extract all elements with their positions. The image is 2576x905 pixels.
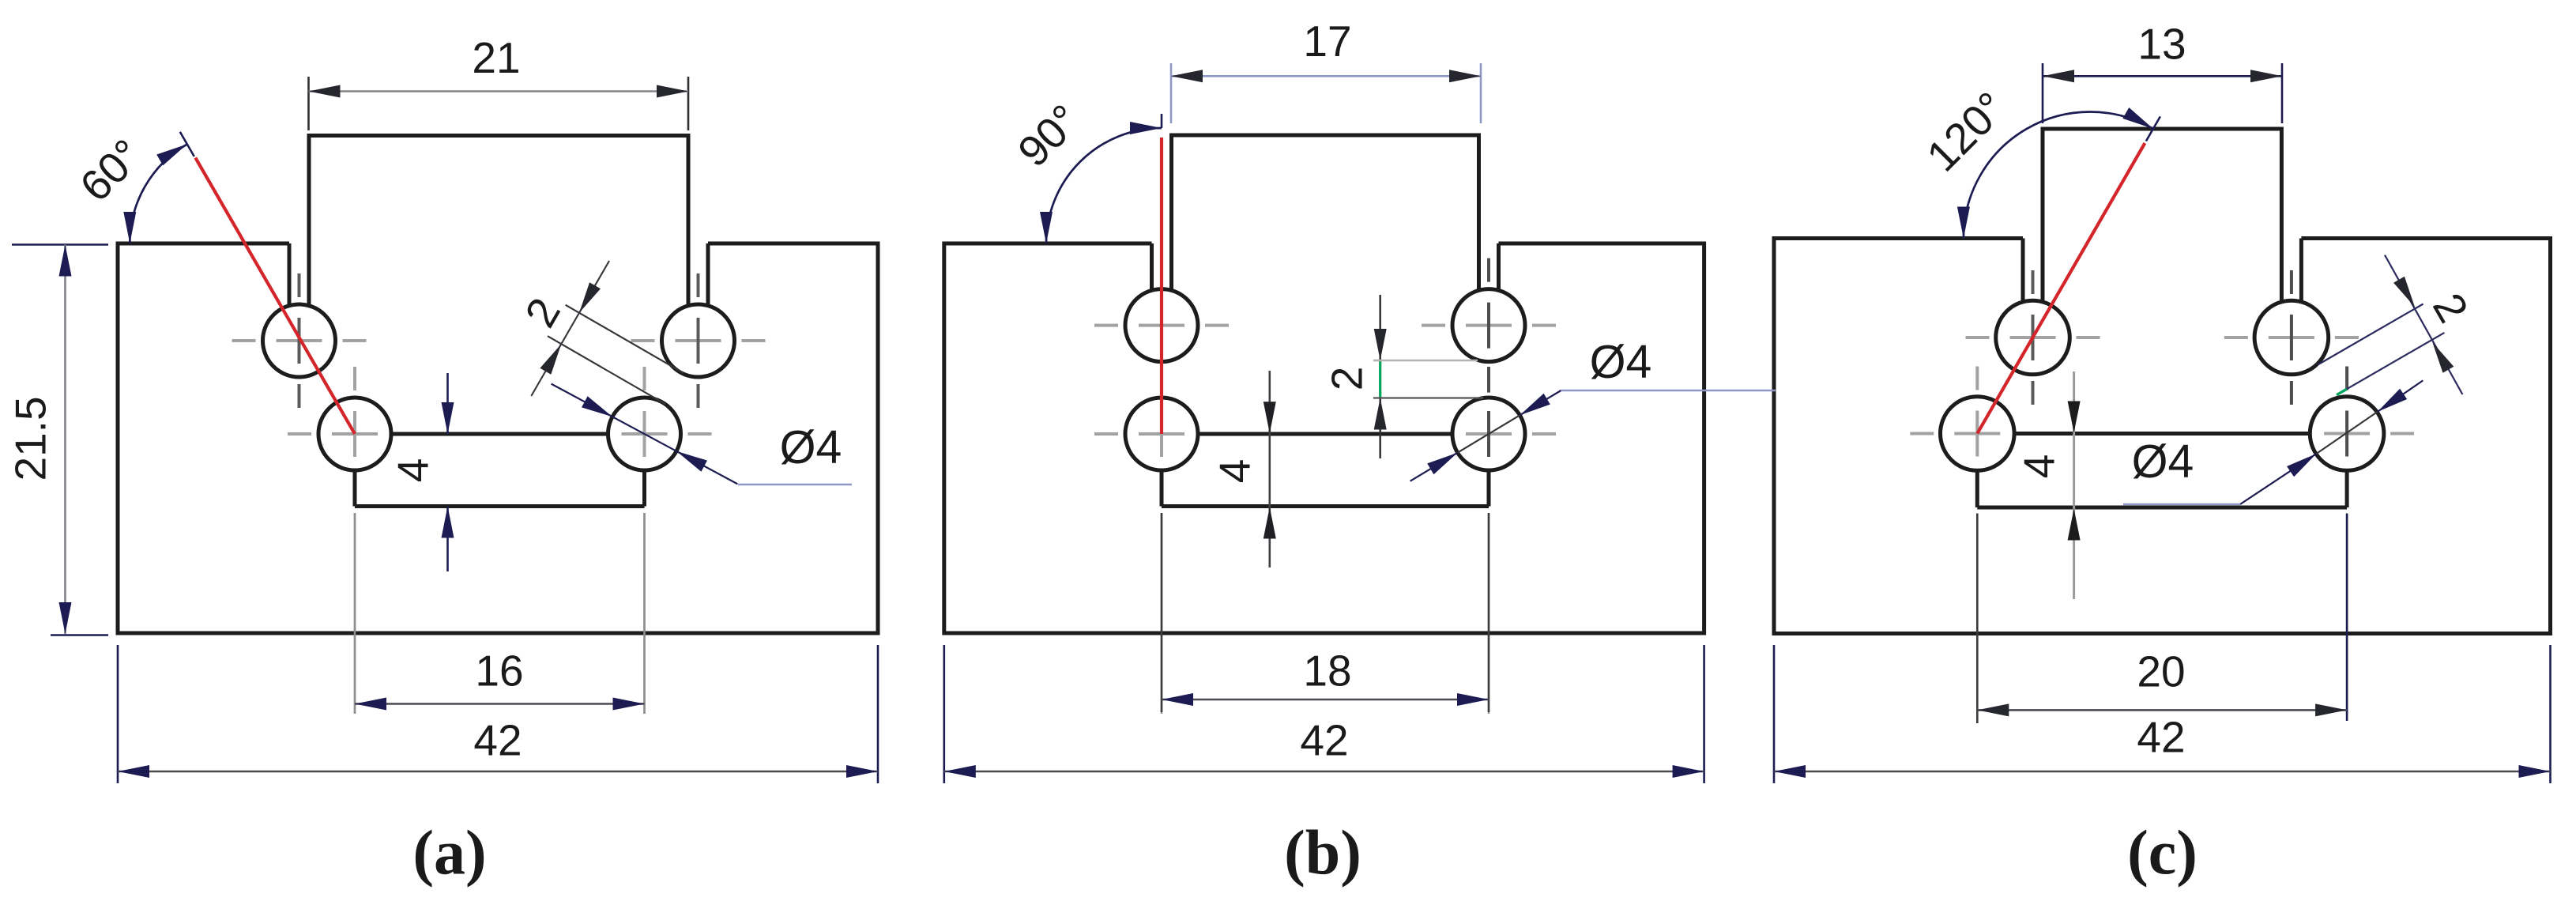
- hole upper-left (c): [1996, 300, 2070, 375]
- dimension 4 slot depth (b): [1211, 371, 1276, 568]
- hole upper-left (a): [263, 304, 336, 377]
- dimension 16 bottom (a): [355, 513, 645, 714]
- red 120-degree cut line (c): [1977, 143, 2145, 433]
- dimension 4 slot depth (c): [2015, 371, 2081, 599]
- svg-text:120°: 120°: [1917, 82, 2015, 180]
- hole centerline cross: [2224, 270, 2359, 405]
- svg-text:Ø4: Ø4: [2132, 436, 2194, 488]
- hole centerline cross: [1094, 367, 1229, 501]
- svg-text:(c): (c): [2127, 819, 2198, 888]
- svg-text:42: 42: [2137, 713, 2185, 762]
- centerline extension to dimension: [354, 513, 356, 714]
- svg-text:4: 4: [2015, 454, 2064, 479]
- diameter leader O4 (b): [1410, 336, 1776, 481]
- hole lower-left (a): [318, 398, 391, 470]
- dimension 2 vertical gap (b): [1323, 295, 1483, 458]
- hole centerline cross: [288, 367, 422, 501]
- svg-text:4: 4: [389, 458, 438, 483]
- svg-text:2: 2: [1323, 367, 1372, 391]
- angle arc 120deg (c): [1957, 107, 2160, 239]
- svg-text:18: 18: [1303, 647, 1351, 696]
- svg-text:4: 4: [1211, 459, 1260, 484]
- dimension 42 bottom (b): [944, 645, 1704, 783]
- angle arc 90deg (b): [1040, 114, 1162, 243]
- centerline extension to dimension: [2346, 513, 2348, 714]
- red 60-degree cut line (a): [195, 158, 355, 434]
- hole lower-right (b): [1452, 398, 1525, 470]
- centerline extension to dimension: [1976, 513, 1978, 714]
- dimension 4 slot depth (a): [389, 373, 454, 571]
- hole upper-right (b): [1452, 289, 1525, 362]
- panel (a) bottom slot: [355, 434, 645, 507]
- hole lower-right (c): [2310, 397, 2384, 471]
- centerline extension to dimension: [1488, 513, 1489, 714]
- svg-text:21: 21: [472, 33, 520, 82]
- hole centerline cross: [232, 273, 367, 408]
- svg-text:21.5: 21.5: [6, 396, 55, 481]
- diameter leader O4 (a): [552, 384, 852, 485]
- svg-text:17: 17: [1303, 17, 1351, 66]
- dimension 42 bottom (a): [118, 645, 878, 783]
- panel (b) bottom slot: [1162, 434, 1489, 507]
- hole upper-right (a): [662, 304, 735, 377]
- svg-text:2: 2: [515, 290, 570, 335]
- hole centerline cross: [1910, 367, 2044, 501]
- svg-text:2: 2: [2423, 285, 2478, 330]
- dimension 20 bottom (c): [1977, 514, 2347, 723]
- svg-text:20: 20: [2137, 647, 2185, 696]
- dimension 18 bottom (b): [1162, 513, 1489, 712]
- hole centerline cross: [1966, 270, 2100, 405]
- svg-text:(b): (b): [1284, 819, 1361, 888]
- dimension 2 diagonal gap (a): [515, 261, 684, 404]
- dimension 21 top (a): [309, 33, 689, 130]
- centerline extension to dimension: [643, 513, 645, 714]
- svg-text:(a): (a): [412, 819, 486, 888]
- hole centerline cross: [631, 273, 766, 408]
- hole centerline cross: [1422, 258, 1556, 393]
- dimension 42 bottom (c): [1774, 645, 2551, 783]
- svg-text:Ø4: Ø4: [780, 421, 842, 473]
- hole lower-left (b): [1125, 398, 1198, 470]
- svg-text:16: 16: [475, 647, 523, 696]
- hole centerline cross: [1422, 367, 1556, 501]
- svg-text:42: 42: [1300, 716, 1348, 765]
- panel (a) body outline: [118, 136, 878, 634]
- dimension 21.5 left (a): [6, 245, 108, 635]
- red 90-degree cut line (b): [1160, 138, 1163, 434]
- green gap mark (c): [2337, 389, 2347, 395]
- hole lower-left (c): [1941, 397, 2015, 471]
- centerline extension to dimension: [1161, 513, 1162, 714]
- panel (c) bottom slot: [1977, 434, 2347, 508]
- panel (b) body outline: [944, 135, 1704, 633]
- dimension 17 top (b): [1171, 17, 1481, 123]
- hole lower-right (a): [608, 398, 681, 470]
- hole centerline cross: [578, 367, 712, 501]
- hole centerline cross: [2280, 367, 2414, 501]
- hole upper-left (b): [1125, 289, 1198, 362]
- panel (c) body outline: [1774, 129, 2551, 634]
- hole upper-right (c): [2254, 300, 2329, 375]
- svg-text:Ø4: Ø4: [1590, 336, 1652, 388]
- hole centerline cross: [1094, 258, 1229, 393]
- svg-text:42: 42: [473, 716, 522, 765]
- dimension 2 diagonal gap (c): [2318, 255, 2478, 395]
- diameter leader O4 (c): [2123, 380, 2423, 504]
- svg-text:13: 13: [2137, 20, 2186, 69]
- angle arc 60deg (a): [123, 132, 194, 243]
- dimension 13 top (c): [2043, 20, 2282, 123]
